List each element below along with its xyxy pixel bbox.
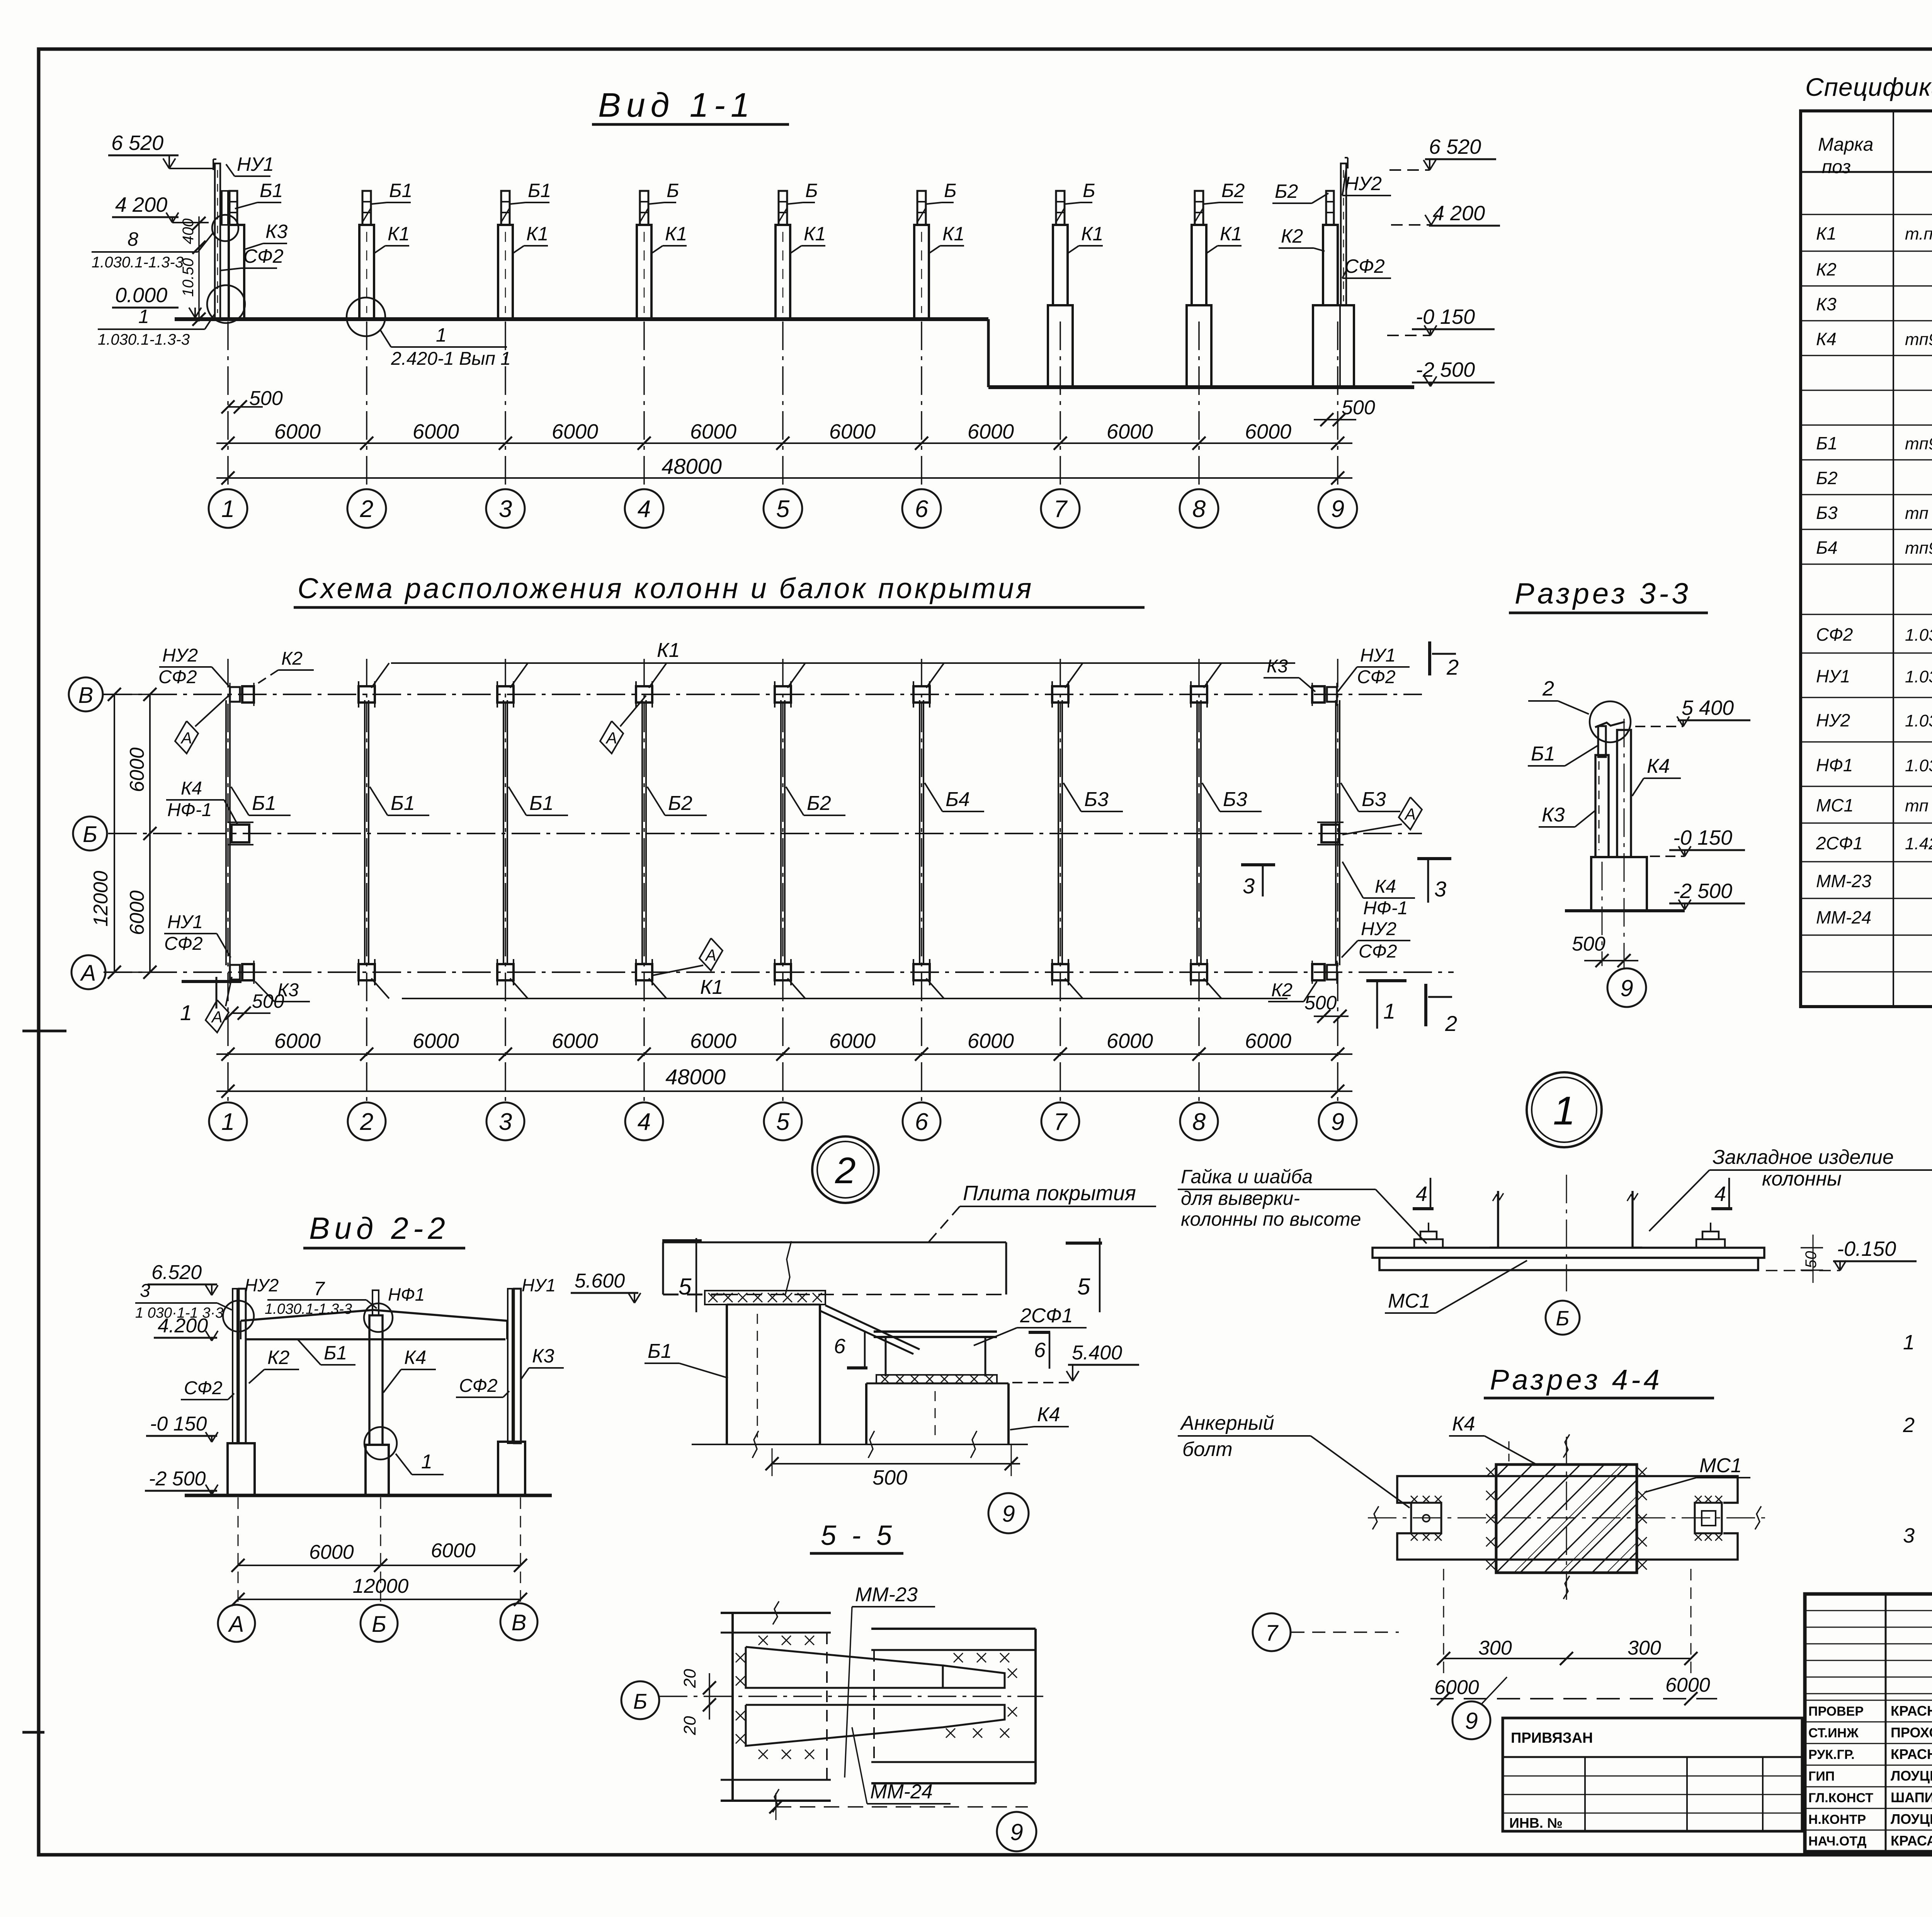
section 3-3 axis B1 (1602, 862, 1603, 966)
svg-text:6: 6 (834, 1335, 846, 1358)
view 2-2 detail circle base B (364, 1427, 397, 1459)
view 1-1 lower ground line level -2.500 (988, 385, 1414, 389)
section mark 1 right (plan) (1366, 979, 1406, 982)
view 2-2 roof beam B1 (245, 1338, 505, 1340)
view 2-2 pedestal A (228, 1443, 255, 1495)
vertical centerline (node 1) (1566, 1175, 1567, 1291)
view 2-2 detail circle top B (364, 1303, 393, 1332)
plan axis row V line (104, 694, 1422, 695)
svg-text:1: 1 (1903, 1331, 1915, 1354)
section 3-3 pedestal (1591, 857, 1647, 911)
svg-text:-2 500: -2 500 (1673, 879, 1732, 903)
svg-text:СФ2: СФ2 (158, 667, 197, 687)
svg-text:9: 9 (1331, 496, 1344, 522)
grid circles 1-9 (view 1-1) (209, 489, 247, 528)
dashed dim to circle 9 (5-5) (776, 1806, 1028, 1808)
svg-text:300: 300 (1628, 1637, 1661, 1659)
column K1 grid 4 (view 1-1) (637, 225, 651, 319)
axis circle B (node 1) (1546, 1301, 1580, 1335)
beam Б1 grid 2 (plan) (364, 700, 366, 965)
svg-text:НУ2: НУ2 (1345, 173, 1382, 194)
fachwerk+column double square grid 1 row V1 (plan) (230, 687, 240, 702)
fachwerk+column double square grid 1 row A1 (plan) (230, 965, 240, 980)
plan grid axis 7 vertical (1060, 659, 1061, 1101)
big detail circle 1 (1527, 1072, 1602, 1147)
svg-text:6000: 6000 (1107, 1029, 1153, 1053)
column K4 square grid 1 row B (plan) (231, 825, 249, 842)
dimension line 6000 spacing (view 1-1) (216, 442, 1352, 444)
svg-text:500: 500 (252, 990, 284, 1012)
svg-text:СФ2: СФ2 (459, 1376, 498, 1396)
svg-text:ЛОУЦКЕР: ЛОУЦКЕР (1891, 1811, 1932, 1827)
beam Б4 grid 6 (plan) (919, 700, 920, 965)
svg-text:400: 400 (180, 218, 197, 244)
left beam flange outline (5-5) (731, 1613, 734, 1801)
section 3-3 beam B1 post (1598, 726, 1606, 757)
svg-text:Б2: Б2 (668, 792, 692, 815)
2SF1 platform (node 2) (874, 1330, 997, 1333)
svg-text:7: 7 (1265, 1621, 1279, 1646)
svg-text:6000: 6000 (552, 420, 598, 443)
svg-text:К2: К2 (1271, 980, 1293, 1000)
svg-text:ММ-23: ММ-23 (1816, 871, 1872, 891)
svg-text:СФ2: СФ2 (1345, 255, 1385, 277)
svg-text:болт: болт (1182, 1438, 1233, 1461)
view 2-2 ground line (185, 1494, 552, 1497)
column K1 grid 2 (view 1-1) (359, 225, 374, 319)
svg-text:Б1: Б1 (252, 792, 276, 815)
column K1 grid 7 with pedestal (view 1-1) (1053, 225, 1068, 305)
diamond marker A near V4 (plan) (600, 721, 623, 754)
wedge MM-23 upper (5-5) (746, 1647, 943, 1688)
svg-text:6000: 6000 (126, 890, 148, 935)
view 2-2 detail circle top A (223, 1301, 254, 1332)
svg-text:4: 4 (638, 1109, 651, 1135)
svg-text:Б1: Б1 (648, 1340, 672, 1362)
svg-text:20: 20 (680, 1716, 699, 1735)
svg-text:5: 5 (679, 1274, 692, 1300)
svg-text:Б4: Б4 (1816, 538, 1838, 558)
svg-text:НАЧ.ОТД: НАЧ.ОТД (1808, 1834, 1866, 1849)
svg-text:К4: К4 (181, 778, 202, 799)
svg-text:-0.150: -0.150 (1837, 1237, 1896, 1260)
svg-text:2СФ1: 2СФ1 (1020, 1305, 1073, 1327)
svg-text:А: А (605, 729, 617, 747)
title block grid (1805, 1594, 1932, 1852)
svg-text:1.030.1-1.4-1-010: 1.030.1-1.4-1-010 (1905, 756, 1932, 775)
svg-text:НУ2: НУ2 (1361, 919, 1396, 939)
column K1 square grid 4 row V (plan) (636, 686, 652, 703)
beam Б1 grid 3 (plan) (503, 700, 504, 965)
right beam flange outline (5-5) (871, 1628, 1036, 1630)
svg-text:Б: Б (372, 1612, 386, 1637)
svg-text:К1: К1 (665, 223, 687, 245)
grid circle 9 bottom (5-5) (997, 1812, 1036, 1851)
plate outline (section 4-4) (1397, 1476, 1738, 1503)
grid axis line 4 (view 1-1) (643, 321, 645, 489)
plan axis circle B (73, 816, 107, 850)
view 2-2 axis circle B (361, 1605, 398, 1642)
svg-text:300: 300 (1478, 1637, 1512, 1659)
fold mark left lower (22, 1731, 44, 1734)
svg-text:ММ-24: ММ-24 (870, 1781, 933, 1803)
svg-text:Б1: Б1 (529, 792, 554, 815)
svg-text:48000: 48000 (665, 1065, 726, 1089)
plan dim 6000 upper left (149, 694, 151, 833)
wedge MM-24 lower (5-5) (746, 1705, 1005, 1746)
dim 300+300 (section 4-4) (1444, 1658, 1691, 1659)
svg-text:СФ2: СФ2 (243, 245, 284, 267)
svg-text:Б: Б (1556, 1307, 1569, 1330)
svg-text:Н.КОНТР: Н.КОНТР (1808, 1812, 1866, 1827)
svg-text:3: 3 (499, 1109, 512, 1135)
grid axis line 6 (view 1-1) (921, 321, 922, 489)
svg-text:1.030.1-1.4-2-10 -01: 1.030.1-1.4-2-10 -01 (1905, 626, 1932, 645)
svg-text:500: 500 (872, 1466, 907, 1489)
svg-text:Б3: Б3 (1362, 788, 1386, 811)
svg-text:Б1: Б1 (260, 180, 283, 201)
grid axis line 8 (view 1-1) (1198, 321, 1200, 489)
svg-text:К3: К3 (532, 1345, 554, 1367)
section mark 5 right (node 2) (1066, 1242, 1102, 1245)
svg-text:СФ2: СФ2 (164, 934, 203, 954)
svg-text:5: 5 (776, 1109, 790, 1135)
svg-text:К1: К1 (700, 976, 723, 998)
svg-text:НУ1: НУ1 (167, 912, 203, 932)
svg-text:1.030.1-1.3-3: 1.030.1-1.3-3 (98, 331, 190, 348)
svg-text:К1: К1 (1816, 223, 1837, 243)
baseplate lower plate (node 1) (1379, 1258, 1758, 1270)
plan dimension 48000 overall (216, 1090, 1352, 1092)
vertical centerline (section 4-4) (1566, 1437, 1567, 1600)
section mark 3 right near grid9 (plan) (1417, 857, 1451, 860)
multi-leader K1 bottom (plan) (402, 998, 1287, 999)
svg-text:ПРОХОРОВА: ПРОХОРОВА (1891, 1725, 1932, 1740)
svg-text:КРАСНОВА: КРАСНОВА (1891, 1746, 1932, 1762)
section 3-3 column K3 (1595, 755, 1609, 857)
svg-text:А: А (704, 946, 716, 964)
diamond marker A near A5 (plan) (699, 938, 723, 971)
svg-text:6000: 6000 (1434, 1676, 1479, 1699)
plan axis circle V (69, 677, 103, 711)
svg-text:6000: 6000 (829, 1029, 876, 1053)
svg-text:20: 20 (680, 1669, 699, 1688)
svg-text:Спецификация к схеме расположе: Спецификация к схеме расположения колонн… (1805, 73, 1932, 101)
svg-text:Анкерный: Анкерный (1180, 1412, 1274, 1434)
svg-text:4 200: 4 200 (115, 193, 167, 216)
detail circle at grid 1 column base (view 1-1) (207, 285, 245, 323)
svg-text:4.200: 4.200 (158, 1315, 208, 1337)
svg-text:500: 500 (1342, 396, 1375, 419)
svg-text:500: 500 (1572, 933, 1605, 955)
svg-text:4 200: 4 200 (1433, 202, 1485, 225)
hatched bearing strip on B1 (node 2) (705, 1291, 825, 1305)
section mark 2 top right (plan) (1428, 641, 1431, 675)
svg-text:Б1: Б1 (389, 180, 412, 201)
grid axis line 5 (view 1-1) (782, 321, 784, 489)
svg-text:Б: Б (633, 1689, 647, 1713)
svg-text:5: 5 (776, 496, 790, 522)
svg-text:К1: К1 (526, 223, 548, 245)
svg-text:Разрез 3-3: Разрез 3-3 (1515, 577, 1691, 610)
svg-text:НФ-1: НФ-1 (1363, 898, 1408, 919)
svg-text:6000: 6000 (431, 1539, 476, 1562)
svg-text:9: 9 (1010, 1819, 1023, 1845)
svg-text:6: 6 (915, 496, 929, 522)
svg-text:6.520: 6.520 (151, 1261, 202, 1284)
svg-text:2: 2 (1903, 1414, 1915, 1437)
svg-text:9: 9 (1465, 1708, 1478, 1734)
column K1 square grid 6 row A (plan) (913, 964, 930, 980)
svg-text:0.000: 0.000 (115, 284, 167, 307)
svg-text:СФ2: СФ2 (1359, 941, 1397, 962)
svg-text:РУК.ГР.: РУК.ГР. (1808, 1747, 1855, 1762)
svg-text:2: 2 (1542, 677, 1554, 700)
big detail circle 2 under plan (812, 1136, 879, 1203)
plan grid axis 1 vertical (227, 659, 229, 1101)
svg-text:500: 500 (1304, 992, 1337, 1014)
svg-text:К4: К4 (404, 1347, 426, 1368)
svg-text:Б4: Б4 (946, 788, 970, 811)
fachwerk post SF2 + column K3 at grid 1 (view 1-1) (215, 163, 220, 319)
svg-text:1.030.1-1.4-2-020 -01: 1.030.1-1.4-2-020 -01 (1905, 711, 1932, 730)
column K1 square grid 2 row V (plan) (359, 686, 375, 703)
column K4 body (node 2) (865, 1383, 867, 1444)
svg-text:2СФ1: 2СФ1 (1816, 833, 1863, 853)
svg-text:К2: К2 (281, 648, 303, 669)
view 2-2 axis circle V (500, 1603, 537, 1640)
svg-text:колонны: колонны (1762, 1168, 1842, 1190)
detail circle at grid 2 column base (view 1-1) (347, 298, 385, 336)
svg-text:НУ2: НУ2 (245, 1275, 279, 1295)
beam Б2 grid 5 (plan) (780, 700, 782, 965)
multi-leader K1 top (plan) (391, 662, 1295, 664)
svg-text:6000: 6000 (1665, 1674, 1710, 1696)
plan grid circles 1-9 (209, 1102, 247, 1140)
svg-text:В: В (512, 1610, 527, 1635)
svg-text:6 520: 6 520 (1429, 135, 1481, 158)
svg-text:5: 5 (1077, 1274, 1090, 1300)
svg-text:4: 4 (1416, 1182, 1427, 1206)
section 3-3 column K4 (1617, 730, 1631, 857)
svg-text:Б1: Б1 (1531, 743, 1555, 765)
svg-text:6000: 6000 (968, 1029, 1014, 1053)
dimension line 48000 overall (view 1-1) (216, 477, 1352, 479)
svg-text:1: 1 (221, 496, 235, 522)
section 3-3 ground line (1565, 909, 1685, 912)
fold mark left upper (22, 1030, 66, 1032)
view 2-2 dim 6000 pair (238, 1565, 520, 1566)
svg-text:6000: 6000 (413, 420, 459, 443)
svg-text:5.400: 5.400 (1072, 1342, 1122, 1364)
view 2-2 pedestal V (498, 1442, 525, 1495)
svg-text:6: 6 (1034, 1339, 1046, 1362)
svg-text:1: 1 (1383, 999, 1395, 1023)
column K1 square grid 5 row A (plan) (775, 964, 791, 980)
plan axis row A line (104, 971, 1454, 973)
plan grid axis 6 vertical (921, 659, 922, 1101)
grid circle 9 (section 3-3) (1607, 968, 1646, 1007)
svg-text:тп 902-9-40.86 КЖИ Б3: тп 902-9-40.86 КЖИ Б3 (1905, 504, 1932, 523)
svg-text:Б2: Б2 (1275, 180, 1298, 202)
svg-text:СТ.ИНЖ: СТ.ИНЖ (1808, 1726, 1859, 1740)
sloped beam top chord (node 2) (820, 1311, 913, 1354)
column K1 square grid 7 row V (plan) (1052, 686, 1068, 703)
svg-text:Б3: Б3 (1816, 503, 1838, 523)
svg-text:6000: 6000 (1245, 1029, 1291, 1053)
view 2-2 column K4 at axis B (369, 1315, 383, 1445)
svg-text:3: 3 (499, 496, 512, 522)
svg-text:НУ1: НУ1 (1360, 645, 1396, 666)
svg-text:К4: К4 (1647, 755, 1670, 777)
svg-text:К3: К3 (1816, 294, 1837, 314)
svg-text:НФ1: НФ1 (388, 1284, 425, 1305)
svg-text:12000: 12000 (90, 871, 112, 927)
svg-text:К4: К4 (1375, 876, 1396, 897)
svg-text:3: 3 (140, 1281, 150, 1301)
svg-text:НФ1: НФ1 (1816, 755, 1853, 775)
column K1 square grid 4 row A (plan) (636, 964, 652, 980)
axis B line (5-5) (659, 1696, 1043, 1697)
svg-text:СФ2: СФ2 (1357, 667, 1396, 687)
svg-text:5 - 5: 5 - 5 (821, 1520, 896, 1551)
svg-text:ЛОУЦКЕР: ЛОУЦКЕР (1891, 1768, 1932, 1784)
svg-text:-0 150: -0 150 (1416, 305, 1475, 328)
svg-text:Закладное изделие: Закладное изделие (1713, 1146, 1894, 1169)
diamond marker A near V1 (plan) (175, 721, 198, 754)
svg-text:СФ2: СФ2 (1816, 624, 1853, 645)
svg-text:1: 1 (180, 1000, 192, 1025)
grid circle 9 (section 4-4) (1452, 1701, 1490, 1739)
svg-text:тп902-9-40.86 КЖИ Б4: тп902-9-40.86 КЖИ Б4 (1905, 539, 1932, 558)
column K1 grid 3 (view 1-1) (498, 225, 513, 319)
svg-text:Б: Б (805, 180, 818, 201)
plan axis row B line (108, 833, 1422, 834)
svg-text:Б: Б (944, 180, 957, 201)
diamond marker A near A1 (plan) (206, 1000, 229, 1032)
detail circle 7 leader (section 4-4) (1253, 1613, 1291, 1651)
svg-text:3: 3 (1434, 877, 1446, 901)
svg-text:6000: 6000 (829, 420, 876, 443)
svg-text:Б1: Б1 (528, 180, 551, 201)
svg-text:К4: К4 (1037, 1403, 1060, 1426)
svg-text:Б1: Б1 (391, 792, 415, 815)
axis circle B (5-5) (621, 1681, 659, 1719)
view 2-2 axis circle A (218, 1605, 255, 1642)
svg-text:КРАСНОВА: КРАСНОВА (1891, 1703, 1932, 1719)
anchor bolt left (node 1) (1414, 1239, 1443, 1248)
column K1 square grid 2 row A (plan) (359, 964, 375, 980)
svg-text:К2: К2 (267, 1347, 289, 1368)
svg-text:6000: 6000 (690, 420, 736, 443)
svg-text:2.420-1 Вып 1: 2.420-1 Вып 1 (391, 349, 511, 369)
svg-text:2: 2 (360, 1109, 373, 1135)
dim 500 (node 2) (771, 1463, 1020, 1465)
svg-text:-0 150: -0 150 (1673, 826, 1732, 849)
svg-text:Б: Б (83, 822, 97, 847)
svg-text:Б: Б (667, 180, 679, 201)
baseplate upper plate (node 1) (1372, 1248, 1764, 1258)
detail circle at grid 1 beam seat (view 1-1) (212, 215, 238, 241)
view 1-1 ground step down (987, 319, 990, 387)
svg-text:12000: 12000 (353, 1575, 409, 1597)
svg-text:КРАСАВКН: КРАСАВКН (1891, 1833, 1932, 1849)
svg-text:МС1: МС1 (1816, 795, 1854, 815)
svg-text:А: А (228, 1612, 244, 1637)
svg-text:4: 4 (1714, 1182, 1726, 1206)
svg-text:ММ-23: ММ-23 (855, 1584, 918, 1606)
svg-text:6000: 6000 (552, 1029, 598, 1053)
svg-text:7: 7 (1054, 496, 1068, 522)
svg-text:ГИП: ГИП (1808, 1769, 1835, 1784)
anchor bolt pocket right (section 4-4) (1695, 1503, 1722, 1533)
beam Б3 grid 9 (plan) (1335, 700, 1337, 965)
column K1 square grid 5 row V (plan) (775, 686, 791, 703)
svg-text:К2: К2 (1816, 259, 1837, 279)
svg-text:3: 3 (1903, 1524, 1915, 1547)
svg-text:6000: 6000 (413, 1029, 459, 1053)
svg-text:9: 9 (1620, 975, 1633, 1001)
svg-text:колонны по высоте: колонны по высоте (1181, 1208, 1361, 1230)
plan grid axis 2 vertical (366, 659, 367, 1101)
svg-text:6000: 6000 (968, 420, 1014, 443)
grid axis line 9 (view 1-1) (1337, 321, 1338, 489)
svg-text:7: 7 (1054, 1109, 1068, 1135)
svg-text:НУ1: НУ1 (1816, 666, 1850, 686)
svg-text:-0 150: -0 150 (150, 1413, 207, 1435)
svg-text:48000: 48000 (662, 454, 722, 478)
svg-text:НУ2: НУ2 (1816, 710, 1850, 730)
column K1 square grid 3 row A (plan) (497, 964, 514, 980)
plan grid axis 9 vertical (1337, 659, 1338, 1101)
svg-text:К1: К1 (804, 223, 826, 245)
svg-text:Схема расположения колонн и ба: Схема расположения колонн и балок покрыт… (298, 572, 1034, 604)
svg-text:8: 8 (1192, 1109, 1206, 1135)
svg-text:К4: К4 (1452, 1413, 1475, 1435)
svg-text:А: А (80, 961, 96, 986)
svg-text:2: 2 (1446, 655, 1459, 679)
svg-text:1.030.1-1.3-3: 1.030.1-1.3-3 (92, 254, 184, 271)
svg-text:5.600: 5.600 (575, 1270, 625, 1292)
svg-text:К1: К1 (1220, 223, 1242, 245)
dim 6000 6000 (section 4-4) (1430, 1698, 1717, 1699)
svg-text:А: А (211, 1008, 223, 1026)
svg-text:К1: К1 (388, 223, 410, 245)
svg-text:10.50: 10.50 (180, 258, 197, 297)
svg-text:1.030.1-1.3-3: 1.030.1-1.3-3 (265, 1301, 352, 1317)
section mark 1 bottom left (plan) (182, 980, 241, 983)
column K1 square grid 7 row A (plan) (1052, 964, 1068, 980)
section 3-3 axis K4 (1624, 719, 1625, 968)
svg-text:СФ2: СФ2 (184, 1378, 223, 1398)
svg-text:5 400: 5 400 (1682, 696, 1734, 720)
svg-text:8: 8 (1192, 496, 1206, 522)
view 1-1 ground line level 0.000 (175, 317, 988, 321)
vertical dim 400 / 10.50 at grid1 (view 1-1) (198, 216, 200, 321)
svg-text:Вид 2-2: Вид 2-2 (309, 1211, 450, 1245)
plan grid axis 5 vertical (782, 659, 784, 1101)
svg-text:Плита покрытия: Плита покрытия (963, 1182, 1136, 1205)
svg-text:4: 4 (638, 496, 651, 522)
svg-text:6000: 6000 (274, 420, 321, 443)
svg-text:1: 1 (1553, 1089, 1575, 1133)
section mark 5 left (node 2) (662, 1239, 702, 1242)
svg-text:1: 1 (138, 306, 149, 327)
beam Б3 grid 8 (plan) (1196, 700, 1198, 965)
svg-text:Б3: Б3 (1084, 788, 1109, 811)
svg-text:1.030.1-1.4-2-020: 1.030.1-1.4-2-020 (1905, 667, 1932, 686)
svg-text:6000: 6000 (1107, 420, 1153, 443)
